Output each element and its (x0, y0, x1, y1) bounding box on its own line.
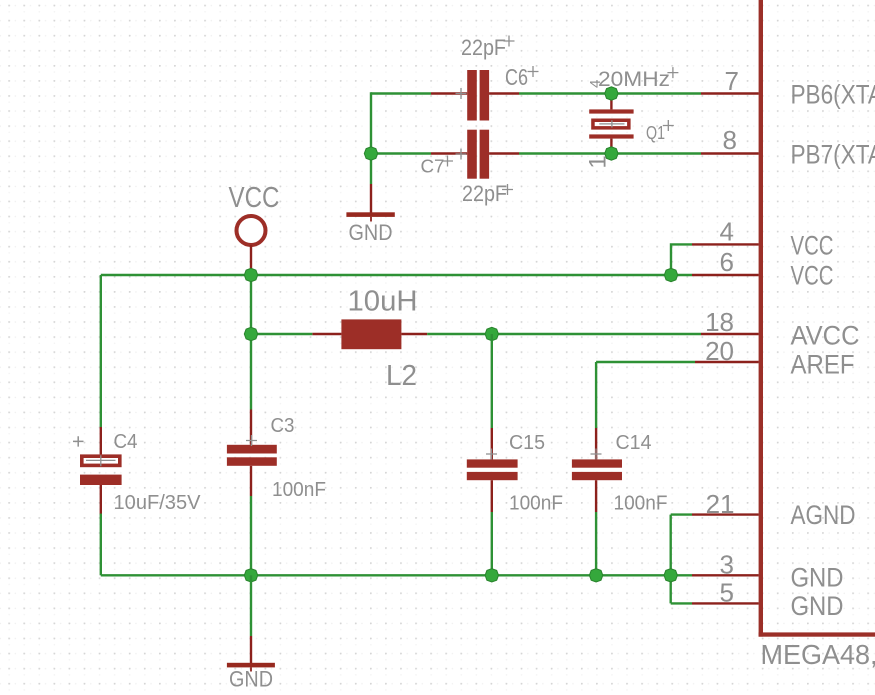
ground symbol top GND bar (346, 212, 394, 217)
wire net XTAL2 horizontal right segment (519, 152, 701, 154)
svg-text:C6: C6 (505, 64, 528, 90)
junction GND at x491.8 (485, 569, 498, 582)
wire VCC horizontal main (101, 274, 692, 276)
junction GND at x596.1 (589, 569, 602, 582)
capacitor C3 bottom plate (227, 457, 277, 466)
svg-text:5: 5 (720, 578, 734, 608)
IC MEGA48 bottom border (759, 632, 875, 636)
wire C4 bottom green (100, 514, 102, 576)
svg-text:PB7(XTAL: PB7(XTAL (791, 140, 875, 170)
svg-text:3: 3 (720, 550, 734, 580)
capacitor C15 top green (491, 334, 493, 428)
wire GND bottom vertical to ground (250, 575, 252, 636)
wire C14 bottom green (595, 512, 597, 575)
capacitor C14 top plate (572, 459, 622, 467)
wire net XTAL1 horizontal left segment (371, 92, 431, 94)
junction AVCC at x251 (244, 327, 257, 340)
pin 7 PB6 red pin stub (701, 92, 759, 94)
svg-text:GND: GND (349, 220, 393, 245)
svg-text:MEGA48,: MEGA48, (761, 639, 875, 670)
svg-text:C3: C3 (271, 415, 295, 437)
svg-text:GND: GND (791, 591, 844, 621)
svg-text:VCC: VCC (791, 231, 834, 261)
inductor L2 right red stub (401, 333, 427, 335)
pin 3 GND red pin stub (692, 574, 759, 576)
ground symbol bottom stub below bar (250, 667, 252, 671)
capacitor C6 right plate (480, 70, 490, 121)
capacitor C4 top red stub (100, 427, 102, 454)
crystal Q1 top red stub (610, 95, 612, 110)
VCC red stub (250, 245, 252, 272)
svg-text:100nF: 100nF (614, 493, 668, 515)
pin 4 VCC red pin stub (692, 243, 759, 245)
svg-text:22pF: 22pF (462, 181, 507, 206)
junction XTAL2 at crystal bottom (605, 147, 618, 160)
capacitor C15 top red stub (491, 428, 493, 459)
svg-text:AVCC: AVCC (791, 321, 860, 351)
svg-text:C15: C15 (509, 432, 545, 454)
wire AVCC from junction to L2 (251, 333, 312, 335)
svg-text:100nF: 100nF (272, 479, 326, 501)
svg-text:C14: C14 (616, 432, 652, 454)
svg-text:VCC: VCC (791, 261, 834, 291)
wire VCC left vertical (100, 275, 102, 427)
wire pin5 horizontal (671, 602, 692, 604)
capacitor C14 bottom plate (572, 472, 622, 480)
crystal Q1 body rectangle (593, 120, 629, 128)
pin 6 VCC red pin stub (692, 274, 759, 276)
svg-text:AGND: AGND (791, 500, 856, 530)
wire AREF horizontal (596, 361, 695, 363)
capacitor C4 bottom red stub (100, 485, 102, 515)
svg-text:10uH: 10uH (348, 286, 418, 318)
svg-text:Q1: Q1 (646, 123, 665, 143)
svg-text:GND: GND (229, 667, 273, 692)
cross after 22pF top (504, 36, 515, 47)
capacitor C7 left red stub (431, 152, 467, 154)
cross after 20MHz (667, 67, 678, 78)
wire VCC right riser to pin 4 (671, 244, 692, 275)
junction GND at x251 (244, 569, 257, 582)
capacitor C15 origin cross (486, 449, 497, 460)
VCC supply symbol circle (237, 216, 266, 245)
svg-text:C4: C4 (114, 431, 138, 453)
svg-text:PB6(XTAL: PB6(XTAL (791, 80, 875, 110)
wire AGND vertical (670, 515, 672, 604)
svg-text:21: 21 (706, 489, 735, 519)
svg-text:8: 8 (723, 125, 737, 155)
svg-text:AREF: AREF (791, 350, 855, 380)
capacitor C15 top plate (467, 459, 518, 467)
svg-text:VCC: VCC (229, 182, 280, 214)
capacitor C4 plus sign (73, 436, 84, 446)
capacitor C3 origin cross (246, 435, 257, 446)
capacitor C6 origin cross (456, 88, 467, 99)
junction AVCC at x491.8 (485, 327, 498, 340)
ground symbol bottom red line (250, 636, 252, 663)
wire VCC center vertical (250, 275, 252, 410)
capacitor C3 top plate (227, 445, 277, 454)
wire C15 bottom green (491, 512, 493, 575)
capacitor C15 bottom plate (467, 472, 518, 480)
wire AREF vertical down to C14 (595, 362, 597, 428)
capacitor C7 right plate (480, 130, 490, 179)
capacitor C4 bottom plate (80, 475, 122, 485)
svg-text:100nF: 100nF (509, 493, 563, 515)
pin 18 AVCC red pin stub (701, 333, 759, 335)
cross after C6 (528, 66, 539, 77)
capacitor C14 origin cross (591, 449, 602, 460)
junction VCC at supply stub (244, 268, 257, 281)
inductor L2 left red stub (312, 333, 341, 335)
capacitor C4 top hollow plate (82, 456, 120, 465)
svg-text:C7: C7 (421, 157, 445, 177)
svg-text:22pF: 22pF (461, 35, 506, 60)
crystal Q1 top electrode bar (589, 109, 633, 113)
junction XTAL1 at crystal top (605, 87, 618, 100)
cross after Q1 (663, 120, 674, 131)
capacitor C14 bottom red stub (595, 480, 597, 512)
svg-text:7: 7 (725, 66, 739, 96)
capacitor C15 bottom red stub (491, 480, 493, 512)
cross after 22pF bottom (502, 184, 513, 195)
ground symbol top stub below bar (370, 217, 372, 222)
svg-text:4: 4 (587, 80, 604, 88)
wire net XTAL1 horizontal right segment (519, 92, 701, 94)
wire AVCC from L2 to pin 18 (427, 333, 701, 335)
svg-text:4: 4 (720, 217, 734, 247)
wire AGND horizontal (671, 513, 692, 515)
capacitor C6 left plate (467, 70, 477, 121)
wire vertical from XTAL1 corner down to GND (370, 92, 372, 184)
junction XTAL2 at left vertical (364, 147, 377, 160)
inductor L2 body (341, 319, 401, 349)
crystal Q1 bottom red stub (610, 139, 612, 153)
svg-text:6: 6 (720, 247, 734, 277)
wire C3 bottom green (250, 496, 252, 575)
ground symbol bottom GND bar (227, 663, 275, 668)
pin 8 PB7 red pin stub (701, 152, 759, 154)
capacitor C4 origin cross (86, 455, 116, 466)
capacitor C3 bottom red stub (250, 466, 252, 496)
capacitor C7 left plate (467, 130, 477, 179)
svg-text:L2: L2 (386, 360, 417, 392)
svg-text:10uF/35V: 10uF/35V (114, 492, 202, 514)
capacitor C6 right red stub (489, 92, 519, 94)
wire red stub into top GND symbol (370, 184, 372, 213)
wire net XTAL2 horizontal left segment (371, 152, 431, 154)
IC MEGA48 left border (759, 0, 763, 637)
capacitor C7 origin cross (456, 149, 467, 160)
capacitor C6 left red stub (431, 92, 467, 94)
pin 5 GND red pin stub (692, 602, 759, 604)
capacitor C3 top red stub (250, 410, 252, 445)
crystal Q1 origin cross (599, 120, 624, 127)
junction GND at x670.7 (664, 569, 677, 582)
junction VCC at right riser (664, 268, 677, 281)
svg-text:GND: GND (791, 563, 844, 593)
crystal Q1 bottom electrode bar (589, 134, 633, 138)
pin 21 AGND red pin stub (692, 513, 759, 515)
cross after C7 (442, 156, 453, 167)
pin 20 AREF red pin stub (695, 361, 759, 363)
svg-text:1: 1 (585, 155, 612, 168)
svg-text:20MHz: 20MHz (598, 68, 670, 91)
svg-text:20: 20 (705, 336, 734, 366)
capacitor C14 top red stub (595, 428, 597, 459)
svg-text:18: 18 (705, 307, 734, 337)
wire GND bottom horizontal (101, 574, 692, 576)
capacitor C7 right red stub (489, 152, 519, 154)
